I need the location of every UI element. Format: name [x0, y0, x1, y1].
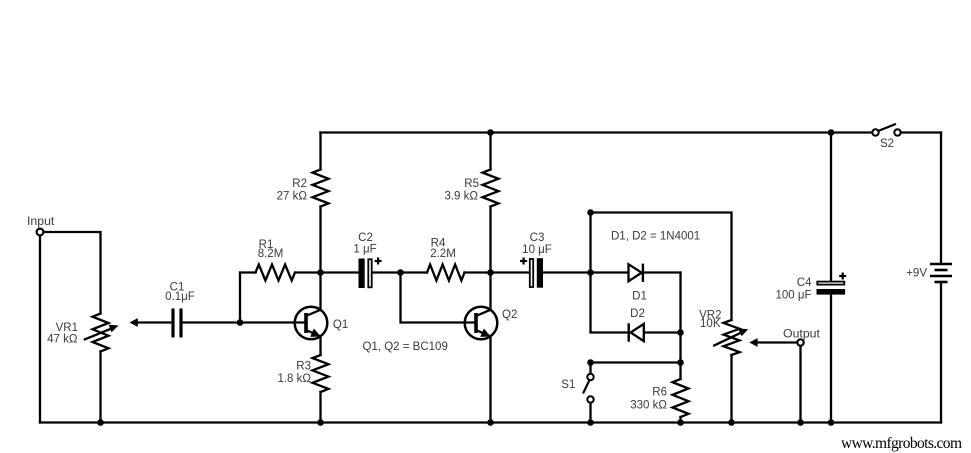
node ground R6 [677, 419, 684, 426]
wire R2 top lead [319, 133, 321, 170]
battery +9V [930, 264, 952, 282]
potentiometer VR1 [93, 314, 109, 352]
wire S1 top horizontal [591, 361, 681, 363]
svg-text:8.2M: 8.2M [258, 248, 284, 260]
svg-text:R6: R6 [652, 387, 667, 399]
wire R1 branch down to base [239, 273, 241, 323]
transistor Q1 [295, 307, 328, 340]
svg-text:D1, D2 = 1N4001: D1, D2 = 1N4001 [611, 230, 700, 242]
svg-text:R2: R2 [292, 178, 307, 190]
wire C3 to node [543, 271, 591, 273]
wire right vertical down to R6 [679, 273, 681, 380]
svg-text:27 kΩ: 27 kΩ [277, 190, 308, 202]
wire R4 right lead [465, 271, 491, 273]
wire R4 left lead [401, 271, 428, 273]
svg-text:R3: R3 [296, 361, 311, 373]
svg-text:S2: S2 [880, 138, 894, 150]
node C3 D1 feedback [587, 269, 594, 276]
resistor R2 [313, 170, 329, 207]
wire top rail left of S2 [321, 131, 873, 133]
wiper arrowhead at VR2 (from Output) [749, 338, 757, 347]
capacitor C3 [520, 258, 543, 288]
wire node up and right to VR2 top [591, 213, 732, 321]
svg-text:10 μF: 10 μF [522, 244, 552, 256]
wire battery bottom to rail [940, 283, 942, 423]
node S1 corner [587, 359, 594, 366]
wire input left leg [39, 236, 41, 423]
node R1 R2 C2 collector [317, 269, 324, 276]
wire bottom ground rail [40, 421, 941, 423]
svg-text:Output: Output [783, 327, 820, 341]
diode D1 [629, 264, 643, 282]
switch S1 [583, 374, 594, 403]
wire R3 bottom lead [319, 392, 321, 423]
wire C4 bottom lead [830, 295, 832, 423]
node feedback corner top [587, 209, 594, 216]
node S1 wire / right vertical [677, 359, 684, 366]
wire C4 top lead [830, 133, 832, 282]
wire VR2 wiper to output [757, 341, 798, 343]
input terminal [37, 229, 44, 236]
svg-text:Q1: Q1 [333, 319, 348, 331]
wire R2 bottom lead to node [319, 207, 321, 273]
svg-text:Q1, Q2 = BC109: Q1, Q2 = BC109 [363, 341, 448, 353]
node R1 base junction [237, 319, 244, 326]
svg-text:VR1: VR1 [56, 322, 78, 334]
svg-text:Input: Input [27, 214, 55, 228]
wiper arrowhead at VR1 (from C1) [130, 318, 138, 327]
resistor R3 [313, 355, 329, 392]
svg-text:1.8 kΩ: 1.8 kΩ [277, 373, 311, 385]
node ground C4 [828, 419, 835, 426]
node ground R3 [317, 419, 324, 426]
svg-text:www.mfgrobots.com: www.mfgrobots.com [841, 435, 962, 452]
svg-text:2.2M: 2.2M [430, 248, 456, 260]
wire node to D1 anode [591, 271, 628, 273]
wire node to C2 [321, 271, 359, 273]
node D2 right [677, 329, 684, 336]
wire Q2 base branch [401, 273, 475, 323]
node ground VR2 [728, 419, 735, 426]
wire VR2 bottom lead [730, 355, 732, 423]
wire R6 bottom lead [679, 417, 681, 423]
wire Q1 collector [319, 273, 321, 311]
wire VR1 bottom lead [99, 352, 101, 423]
svg-text:S1: S1 [561, 379, 575, 391]
node C2 R4 Q2-base [397, 269, 404, 276]
node ground S1 [587, 419, 594, 426]
wire R1 right lead [295, 271, 321, 273]
svg-text:10K: 10K [700, 318, 721, 330]
svg-text:1 μF: 1 μF [353, 244, 376, 256]
wire C1 to Q1 base [183, 321, 305, 323]
switch S2 [872, 124, 900, 136]
resistor R1 [256, 265, 296, 281]
node ground output [797, 419, 804, 426]
wire C2 to node [373, 271, 401, 273]
node top rail / R5 [487, 129, 494, 136]
wire R5 bottom lead [489, 207, 491, 273]
wire Q1 emitter to R3 [319, 337, 321, 356]
potentiometer VR1 arrow [84, 325, 119, 340]
svg-text:C2: C2 [358, 232, 373, 244]
wire D1 cathode to right vertical [643, 271, 681, 273]
svg-text:47 kΩ: 47 kΩ [47, 334, 78, 346]
svg-text:C3: C3 [530, 232, 545, 244]
node top rail / C4 [828, 129, 835, 136]
output terminal [797, 339, 803, 345]
wire top rail right of S2 [901, 131, 941, 133]
capacitor C2 [359, 258, 382, 289]
resistor R4 [427, 265, 465, 281]
wire R1 left lead [240, 271, 256, 273]
node R4 R5 C3 collector [487, 269, 494, 276]
svg-text:0.1μF: 0.1μF [165, 291, 195, 303]
wire D2 branch from left vertical [591, 273, 629, 333]
resistor R5 [483, 170, 499, 207]
wire Q2 collector [489, 273, 491, 311]
wire output down to rail [799, 346, 801, 423]
svg-text:R5: R5 [464, 178, 479, 190]
node ground VR1 [97, 419, 104, 426]
svg-text:100 μF: 100 μF [775, 290, 811, 302]
wire input top to VR1 [44, 232, 101, 314]
wire S1 top lead [589, 363, 591, 374]
svg-text:D2: D2 [630, 308, 645, 320]
svg-text:Q2: Q2 [502, 309, 517, 321]
svg-text:+9V: +9V [906, 268, 927, 280]
potentiometer VR2 [724, 320, 740, 355]
potentiometer VR2 arrow [713, 329, 748, 346]
diode D2 [629, 323, 644, 341]
node ground Q2 emitter [487, 419, 494, 426]
wire S1 bottom lead [589, 403, 591, 423]
capacitor C4 [817, 273, 847, 295]
wire D2 right side [645, 331, 681, 333]
svg-text:D1: D1 [632, 290, 647, 302]
wire right edge to battery top [940, 133, 942, 264]
wire R5 top lead [489, 133, 491, 170]
transistor Q2 [465, 307, 498, 340]
capacitor C1 [171, 309, 182, 338]
svg-text:330 kΩ: 330 kΩ [630, 399, 667, 411]
wire Q2 emitter to ground [489, 337, 491, 423]
svg-text:C4: C4 [797, 277, 812, 289]
wire node to C3 [491, 271, 530, 273]
svg-text:3.9 kΩ: 3.9 kΩ [444, 190, 478, 202]
wire wiper to C1 [136, 321, 172, 323]
resistor R6 [673, 379, 689, 417]
